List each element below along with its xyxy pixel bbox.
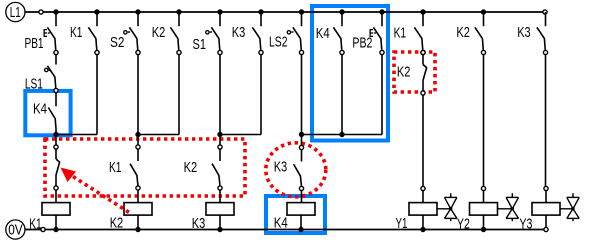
- contact S1: [206, 12, 222, 55]
- wire: [137, 190, 139, 203]
- contact K4 (sealing): [48, 93, 56, 135]
- wire: [545, 55, 547, 187]
- node bottom rail junction Y1: [420, 227, 425, 232]
- node bottom rail junction K1: [53, 227, 58, 232]
- wire: [300, 215, 302, 229]
- node bottom rail junction Y2: [481, 227, 486, 232]
- svg-text:K4: K4: [316, 25, 330, 42]
- contact S2: [124, 12, 140, 55]
- contact K1 lower: [130, 145, 140, 190]
- wire: [545, 191, 547, 203]
- wire: [301, 135, 303, 146]
- svg-text:S2: S2: [110, 34, 125, 51]
- wire: [422, 215, 424, 229]
- svg-text:K4: K4: [274, 215, 288, 232]
- coil Y2: [470, 203, 498, 216]
- svg-text:S1: S1: [193, 36, 207, 53]
- power terminal 0V: [6, 220, 25, 239]
- svg-text:Y1: Y1: [396, 215, 408, 232]
- node bottom rail junction K3: [217, 227, 222, 232]
- wire: [422, 95, 424, 186]
- svg-text:PB2: PB2: [352, 35, 372, 52]
- valve Y2: [506, 193, 518, 221]
- wire: [219, 190, 221, 203]
- coil K2: [124, 203, 152, 216]
- contact K2 right: [475, 12, 486, 55]
- svg-text:K3: K3: [274, 158, 288, 175]
- terminal circle top rail end: [543, 10, 547, 14]
- node junction branch8 bus: [339, 132, 344, 137]
- coil K1: [42, 203, 70, 216]
- contact K1: [88, 12, 99, 55]
- svg-text:K2: K2: [397, 63, 411, 80]
- svg-text:K1: K1: [109, 159, 122, 176]
- wire: [341, 55, 343, 135]
- wire: [483, 215, 485, 229]
- wire: [138, 55, 179, 135]
- power terminal L1: [6, 2, 25, 21]
- node bottom rail junction K4: [298, 227, 303, 232]
- wire: [545, 215, 547, 227]
- node junction branch5/branch6: [217, 132, 222, 137]
- svg-text:0V: 0V: [8, 222, 23, 239]
- terminal circle bottom rail end: [544, 227, 548, 231]
- svg-text:K2: K2: [456, 24, 470, 41]
- highlight blue box K4 contact: [25, 91, 70, 135]
- wire: [55, 190, 57, 203]
- svg-text:K1: K1: [70, 24, 83, 41]
- svg-text:PB1: PB1: [25, 35, 44, 52]
- node top rail junction c2: [94, 9, 99, 14]
- contact K2: [170, 12, 181, 55]
- contact PB2: [370, 12, 384, 55]
- wire Y2 to valve: [498, 208, 513, 210]
- svg-text:K3: K3: [517, 24, 531, 41]
- contact unnamed closed (arrow target): [54, 145, 60, 190]
- node bottom rail junction K2: [135, 227, 140, 232]
- wire: [137, 215, 139, 229]
- terminal circle on 0V rail: [41, 227, 45, 231]
- wire: [301, 191, 303, 203]
- wire: [137, 55, 139, 135]
- highlight blue box K4 coil: [266, 196, 325, 233]
- node top rail junction c3: [135, 9, 140, 14]
- node top rail junction c1: [53, 9, 58, 14]
- svg-text:K1: K1: [29, 216, 42, 233]
- highlight red dotted ellipse K3 lower: [266, 143, 326, 197]
- svg-text:K4: K4: [33, 101, 47, 118]
- contact K4: [333, 12, 344, 55]
- node junction branch7 bus: [299, 132, 304, 137]
- terminal circle Y2: [481, 186, 485, 190]
- wire bus to PB2 branch: [302, 134, 383, 136]
- wire: [137, 135, 139, 146]
- annotation red arrow: [61, 168, 131, 214]
- terminal circle Y1: [421, 186, 425, 190]
- wire: [55, 135, 57, 146]
- node top rail junction c4: [176, 9, 181, 14]
- node top rail junction c11: [481, 9, 486, 14]
- wire Y1 to valve: [437, 208, 451, 210]
- wire: [55, 55, 57, 65]
- wire: [219, 55, 221, 135]
- svg-text:Y2: Y2: [457, 216, 470, 233]
- highlight red dotted box K2 closed: [394, 52, 435, 92]
- contact LS1: [45, 66, 59, 93]
- contact PB1: [44, 12, 58, 55]
- coil Y1: [409, 203, 437, 216]
- node top rail junction c6: [258, 9, 263, 14]
- valve Y3: [567, 193, 579, 221]
- valve Y1: [445, 193, 457, 221]
- wire: [422, 191, 424, 203]
- node top rail junction c9: [379, 9, 384, 14]
- highlight blue box K4/PB2 branches: [312, 6, 388, 141]
- wire bottom rail 0V: [25, 229, 546, 231]
- svg-text:LS2: LS2: [269, 34, 288, 51]
- wire: [55, 215, 57, 229]
- terminal circle Y3: [544, 186, 548, 190]
- node top rail junction c7: [299, 9, 304, 14]
- contact K3 right: [537, 12, 548, 55]
- svg-text:K2: K2: [184, 159, 198, 176]
- contact K3: [252, 12, 263, 55]
- svg-text:K2: K2: [110, 215, 124, 232]
- svg-text:Y3: Y3: [519, 216, 532, 233]
- node top rail junction c5: [217, 9, 222, 14]
- svg-text:L1: L1: [10, 4, 21, 21]
- contact K1 right: [414, 12, 425, 55]
- svg-text:K1: K1: [394, 24, 407, 41]
- svg-text:K3: K3: [192, 215, 206, 232]
- coil K4: [287, 203, 315, 216]
- coil Y3: [532, 203, 560, 216]
- node junction branch1/branch2: [53, 132, 58, 137]
- svg-text:K2: K2: [152, 24, 166, 41]
- wire top rail L1: [25, 11, 545, 13]
- terminal circle on L1 rail: [39, 10, 43, 14]
- svg-text:K3: K3: [232, 24, 246, 41]
- wire Y3 to valve: [560, 208, 573, 210]
- wire: [56, 55, 97, 135]
- contact K2 lower: [212, 145, 222, 190]
- contact K3 lower: [294, 145, 304, 190]
- wire: [483, 191, 485, 203]
- coil K3: [206, 203, 234, 216]
- wire: [219, 215, 221, 229]
- wire: [381, 55, 383, 135]
- wire: [219, 135, 221, 146]
- wire: [301, 55, 303, 135]
- wire: [220, 55, 261, 135]
- node top rail junction c8: [339, 9, 344, 14]
- highlight red dotted box lower contacts: [45, 139, 245, 196]
- svg-text:LS1: LS1: [25, 76, 43, 93]
- contact K2 closed (in red box): [421, 50, 427, 95]
- wire: [483, 55, 485, 187]
- node top rail junction c10: [420, 9, 425, 14]
- node junction branch3/branch4: [135, 132, 140, 137]
- contact LS2: [287, 12, 303, 55]
